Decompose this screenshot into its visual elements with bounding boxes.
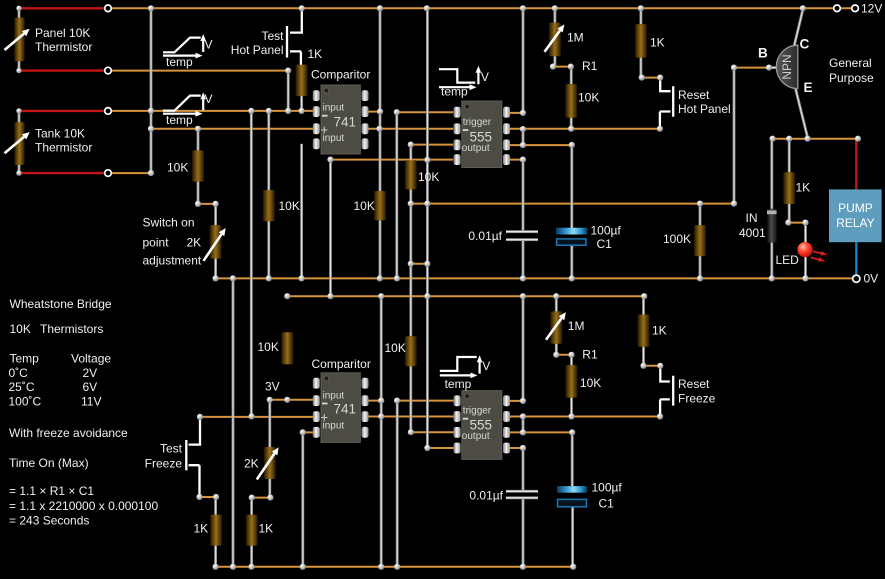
svg-text:Test: Test: [261, 29, 284, 43]
svg-text:Panel 10K: Panel 10K: [35, 26, 90, 40]
svg-text:C1: C1: [599, 497, 615, 511]
svg-text:R1: R1: [582, 348, 598, 362]
svg-text:V: V: [481, 70, 489, 84]
svg-text:10K: 10K: [580, 376, 601, 390]
svg-text:adjustment: adjustment: [143, 254, 202, 268]
svg-text:temp: temp: [166, 113, 193, 127]
switch Test Hot Panel / Reset Hot Panel / Test Freeze / Reset Freeze: [186, 10, 673, 494]
svg-text:1K: 1K: [650, 36, 665, 50]
svg-text:LED: LED: [776, 253, 800, 267]
svg-text:Comparitor: Comparitor: [312, 357, 371, 371]
svg-text:point: point: [143, 236, 170, 250]
svg-text:10K: 10K: [418, 170, 439, 184]
svg-text:Comparitor: Comparitor: [311, 68, 370, 82]
svg-text:temp: temp: [166, 55, 193, 69]
timer U4 555 (freeze): [462, 391, 502, 460]
svg-text:100K: 100K: [663, 232, 691, 246]
capacitor C1 100uf (freeze): [557, 486, 587, 493]
svg-text:10K: 10K: [578, 91, 599, 105]
svg-text:6V: 6V: [83, 380, 98, 394]
svg-text:R1: R1: [582, 59, 598, 73]
svg-text:V: V: [205, 92, 213, 106]
op-amp U3 741 comparator (freeze): [321, 373, 360, 443]
svg-text:input: input: [323, 133, 345, 144]
svg-text:10K: 10K: [167, 161, 188, 175]
svg-text:10K: 10K: [385, 341, 406, 355]
svg-text:input: input: [323, 420, 345, 431]
svg-text:IN: IN: [746, 211, 758, 225]
svg-text:= 1.1 × R1 × C1: = 1.1 × R1 × C1: [9, 484, 94, 498]
svg-text:1M: 1M: [567, 31, 584, 45]
svg-text:10K: 10K: [10, 322, 31, 336]
svg-text:741: 741: [334, 115, 357, 130]
svg-text:12V: 12V: [861, 2, 882, 16]
svg-text:C: C: [800, 37, 810, 52]
timer U2 555 (hot panel): [462, 101, 502, 168]
svg-text:1M: 1M: [568, 319, 585, 333]
svg-text:100˚C: 100˚C: [9, 395, 42, 409]
svg-text:Hot Panel: Hot Panel: [231, 43, 284, 57]
svg-text:Time On (Max): Time On (Max): [9, 456, 89, 470]
svg-text:0˚C: 0˚C: [9, 366, 29, 380]
svg-text:= 1.1 x 2210000 x 0.000100: = 1.1 x 2210000 x 0.000100: [9, 499, 158, 513]
svg-text:Reset: Reset: [678, 88, 710, 102]
svg-text:10K: 10K: [258, 340, 279, 354]
red thermistor wires / relay 12V wire / relay 0V blue wire: [19, 8, 105, 173]
svg-text:Thermistors: Thermistors: [40, 322, 103, 336]
svg-text:4001: 4001: [739, 226, 766, 240]
svg-text:temp: temp: [445, 377, 472, 391]
op-amp U1 741 comparator (hot panel): [321, 85, 360, 154]
svg-text:NPN: NPN: [780, 54, 794, 79]
svg-text:2K: 2K: [187, 236, 202, 250]
svg-text:output: output: [462, 431, 490, 442]
svg-text:With freeze avoidance: With freeze avoidance: [9, 426, 128, 440]
relay box: [829, 189, 882, 242]
svg-text:1K: 1K: [194, 522, 209, 536]
capacitor C 0.01uf (hot panel): [506, 230, 538, 233]
svg-text:B: B: [758, 46, 768, 61]
svg-text:Wheatstone Bridge: Wheatstone Bridge: [10, 297, 112, 311]
svg-text:Switch on: Switch on: [143, 216, 195, 230]
svg-text:2V: 2V: [83, 366, 98, 380]
svg-text:Tank 10K: Tank 10K: [35, 127, 85, 141]
svg-text:1K: 1K: [796, 181, 811, 195]
diode IN4001: [767, 209, 777, 243]
svg-text:E: E: [804, 80, 813, 95]
pot & thermistor arrows: [5, 34, 25, 50]
svg-text:10K: 10K: [354, 199, 375, 213]
svg-text:Voltage: Voltage: [71, 352, 111, 366]
svg-text:2K: 2K: [244, 457, 259, 471]
svg-text:output: output: [462, 143, 490, 154]
svg-text:Thermistor: Thermistor: [35, 40, 92, 54]
svg-text:= 243 Seconds: = 243 Seconds: [9, 513, 89, 527]
svg-text:11V: 11V: [81, 395, 101, 409]
svg-text:0V: 0V: [864, 272, 879, 286]
svg-text:trigger: trigger: [463, 117, 492, 128]
svg-text:Test: Test: [160, 442, 183, 456]
svg-text:General: General: [829, 56, 872, 70]
svg-text:input: input: [323, 103, 345, 114]
svg-text:Hot Panel: Hot Panel: [678, 102, 731, 116]
svg-text:100µf: 100µf: [591, 224, 622, 238]
svg-text:trigger: trigger: [463, 406, 492, 417]
svg-text:Reset: Reset: [678, 377, 710, 391]
svg-text:100µf: 100µf: [592, 481, 623, 495]
svg-text:RELAY: RELAY: [836, 216, 874, 230]
capacitor C 0.01uf (freeze): [506, 490, 538, 493]
svg-text:PUMP: PUMP: [838, 201, 873, 215]
open terminals: [105, 5, 112, 12]
junction dots: [16, 6, 21, 11]
svg-text:temp: temp: [441, 85, 468, 99]
svg-text:25˚C: 25˚C: [9, 380, 35, 394]
svg-text:C1: C1: [597, 237, 613, 251]
svg-text:V: V: [482, 359, 490, 373]
LED: [797, 242, 812, 257]
svg-text:Thermistor: Thermistor: [35, 141, 92, 155]
svg-text:0.01µf: 0.01µf: [468, 229, 502, 243]
svg-text:1K: 1K: [259, 522, 274, 536]
svg-text:Freeze: Freeze: [145, 457, 183, 471]
resistor bodies: [14, 18, 25, 62]
transistor Q1 NPN: [776, 45, 798, 88]
svg-text:Purpose: Purpose: [829, 71, 874, 85]
svg-text:741: 741: [334, 401, 357, 416]
svg-text:1K: 1K: [308, 47, 323, 61]
temp/V graphs: [163, 38, 480, 376]
svg-text:Freeze: Freeze: [678, 392, 716, 406]
svg-text:Temp: Temp: [10, 352, 40, 366]
svg-text:1K: 1K: [652, 324, 667, 338]
svg-text:V: V: [205, 38, 213, 52]
svg-text:10K: 10K: [279, 199, 300, 213]
svg-text:3V: 3V: [265, 379, 280, 393]
svg-text:0.01µf: 0.01µf: [469, 489, 503, 503]
capacitor C1 100uf (hot panel): [556, 228, 588, 235]
svg-text:input: input: [323, 390, 345, 401]
